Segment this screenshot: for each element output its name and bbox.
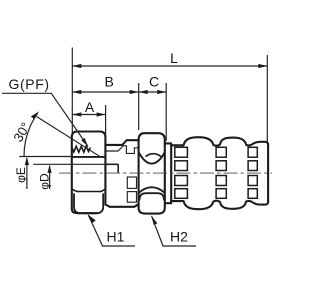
arrowheads A [72,112,81,116]
arrowhead H1 [88,215,96,223]
30 deg arc [24,114,37,157]
hex H2 outline [139,133,165,213]
swivel groove squares [127,177,136,188]
arrowheads B [72,90,81,94]
arrowheads C [139,90,148,94]
arrowhead 30deg arc [31,111,39,119]
svg-text:G(PF): G(PF) [9,76,50,92]
arrowhead phiE [25,157,29,165]
extension line A right [105,105,107,136]
hex H1 front face [72,189,106,192]
H1 leader [88,215,135,246]
extension line L right [266,55,268,143]
dimension line A [72,114,105,116]
socket collar [165,143,171,203]
arrowheads L [72,64,81,68]
claw step outer (swivel joint) [105,140,138,145]
hex H2 face arcs [139,153,165,164]
svg-text:A: A [85,99,95,115]
phiE arrow shaft [26,158,28,189]
phiD arrow shaft [49,166,51,189]
dimension line B [72,91,138,93]
extension line B/C [138,83,140,130]
arrowhead phiD [48,165,52,173]
svg-text:H1: H1 [107,229,125,245]
svg-text:φD: φD [37,173,51,190]
sleeve right face [267,144,269,202]
phiD bore line [33,163,105,165]
svg-text:B: B [105,74,114,90]
svg-text:30°: 30° [10,120,33,145]
svg-text:φE: φE [14,167,28,183]
neck lower [105,204,138,207]
centerline [59,172,272,174]
arrowhead G leader [81,138,88,147]
G(PF) leader [2,93,88,146]
cone seat 30 deg line [37,117,101,157]
extension line left [71,48,73,135]
svg-text:H2: H2 [170,229,188,245]
H2 leader [152,216,197,246]
crimp sleeve outline bottom [171,201,268,210]
extension line C right [165,83,167,141]
claw step inner line [105,146,138,154]
arrowhead H2 [152,216,158,225]
svg-text:L: L [170,50,178,66]
sleeve crimp windows [175,147,258,198]
svg-text:C: C [149,74,159,90]
dimension line C [139,91,167,93]
crimp sleeve outline top [171,137,268,146]
thread zigzag G(PF) [72,146,91,152]
hex nut H1 outline [72,132,106,214]
phiE level line [19,156,72,158]
dimension line L [72,65,267,67]
